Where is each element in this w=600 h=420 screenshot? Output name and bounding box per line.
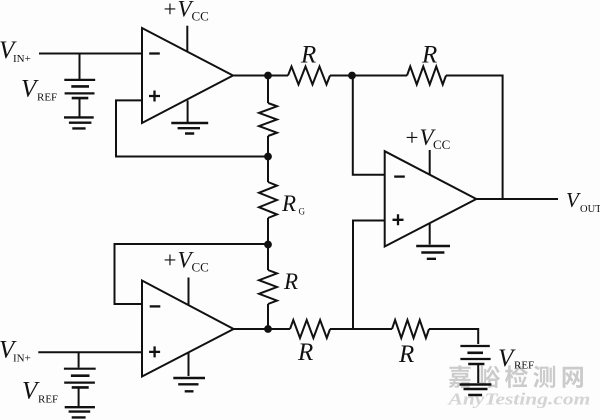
svg-text:AnyTesting.com: AnyTesting.com — [447, 390, 590, 408]
wire node1 to R vertical — [267, 76, 269, 104]
wire U2 output — [234, 328, 290, 330]
battery B3 plates — [460, 346, 492, 395]
resistor RG zigzag — [259, 182, 277, 218]
svg-text:OUT: OUT — [580, 204, 600, 215]
ground under U1 — [171, 123, 208, 134]
wire to battery B3 — [429, 329, 478, 344]
svg-text:R: R — [281, 191, 296, 216]
ground under B3 — [460, 385, 492, 396]
battery B1 plates — [64, 80, 95, 128]
op-amp U3 plus pin mark — [393, 214, 404, 225]
op-amp U1 — [142, 28, 233, 123]
wire R to node2 — [267, 136, 269, 157]
wire U3 plus input — [353, 221, 385, 330]
svg-text:R: R — [398, 341, 414, 368]
op-amp U1 Vcc stem — [186, 26, 188, 52]
op-amp U3 ground stem — [429, 223, 431, 245]
wire U1 output — [233, 75, 288, 77]
wire U1 plus feedback — [116, 100, 268, 156]
svg-text:REF: REF — [37, 92, 57, 104]
svg-text:G: G — [299, 207, 306, 217]
op-amp U2 Vcc stem — [188, 278, 190, 306]
op-amp U2 ground stem — [188, 352, 190, 376]
svg-text:R: R — [297, 339, 313, 366]
wire battery B1 top stem — [79, 54, 81, 80]
node D dot (RG bottom) — [264, 241, 272, 249]
svg-text:REF: REF — [38, 394, 58, 406]
node A dot (U1 out) — [264, 72, 272, 80]
wire between top resistors — [330, 75, 407, 77]
node E dot (U2 out) — [264, 325, 272, 333]
battery B2 lower stem — [78, 388, 80, 406]
op-amp U1 ground stem — [187, 101, 189, 123]
battery B3 mid stem — [477, 365, 479, 384]
ground under B2 — [65, 407, 95, 417]
ground under B1 — [64, 117, 94, 128]
op-amp U3 minus pin mark — [394, 175, 405, 177]
wire between bottom resistors — [330, 328, 392, 330]
op-amp U2 — [142, 281, 234, 377]
resistor R top-left zigzag — [288, 67, 330, 85]
wire node3 to R vertical lower — [267, 245, 269, 271]
op-amp U2 plus pin mark — [149, 346, 160, 357]
wire R to node4 — [267, 304, 269, 329]
svg-text:R: R — [421, 42, 437, 69]
svg-text:R: R — [283, 269, 298, 294]
resistor R bottom-right zigzag — [392, 320, 429, 338]
resistor R vertical top zigzag — [259, 103, 277, 136]
svg-text:+V: +V — [162, 248, 195, 273]
svg-text:CC: CC — [192, 9, 209, 24]
battery B1 lower stem — [79, 99, 81, 117]
op-amp U1 plus pin mark — [149, 91, 160, 102]
svg-text:REF: REF — [514, 360, 534, 372]
wire U3 output — [476, 198, 558, 200]
wire top input — [39, 53, 142, 55]
battery B2 plates — [64, 369, 96, 418]
op-amp U3 — [385, 151, 477, 246]
ground under U2 — [173, 378, 205, 391]
node B dot (top mid) — [348, 72, 356, 80]
svg-text:IN+: IN+ — [13, 353, 31, 365]
op-amp U1 minus pin mark — [149, 52, 160, 54]
svg-text:IN+: IN+ — [13, 53, 31, 65]
wire bottom input — [38, 351, 142, 353]
resistor R bottom-left zigzag — [290, 320, 330, 338]
resistor R top-right zigzag — [407, 67, 446, 85]
wire U2 minus feedback — [115, 244, 269, 304]
wire node2 to RG — [267, 157, 269, 183]
op-amp U3 Vcc stem — [429, 150, 431, 175]
wire top feedback to output — [446, 76, 503, 200]
wire RG to node3 — [267, 218, 269, 245]
svg-text:CC: CC — [433, 137, 450, 152]
svg-text:+V: +V — [162, 0, 195, 22]
node C dot (RG top) — [264, 153, 272, 161]
ground under U3 — [416, 246, 450, 259]
wire U3 minus input — [353, 76, 385, 175]
svg-text:+V: +V — [404, 125, 437, 150]
svg-text:V: V — [566, 188, 581, 212]
wire battery B2 top stem — [78, 352, 80, 367]
op-amp U2 minus pin mark — [150, 305, 161, 307]
resistor R vertical lower zigzag — [259, 270, 277, 304]
svg-text:R: R — [300, 42, 316, 69]
svg-text:CC: CC — [192, 260, 209, 275]
watermark chinese "嘉峪检测网" as vector paths — [449, 365, 583, 388]
